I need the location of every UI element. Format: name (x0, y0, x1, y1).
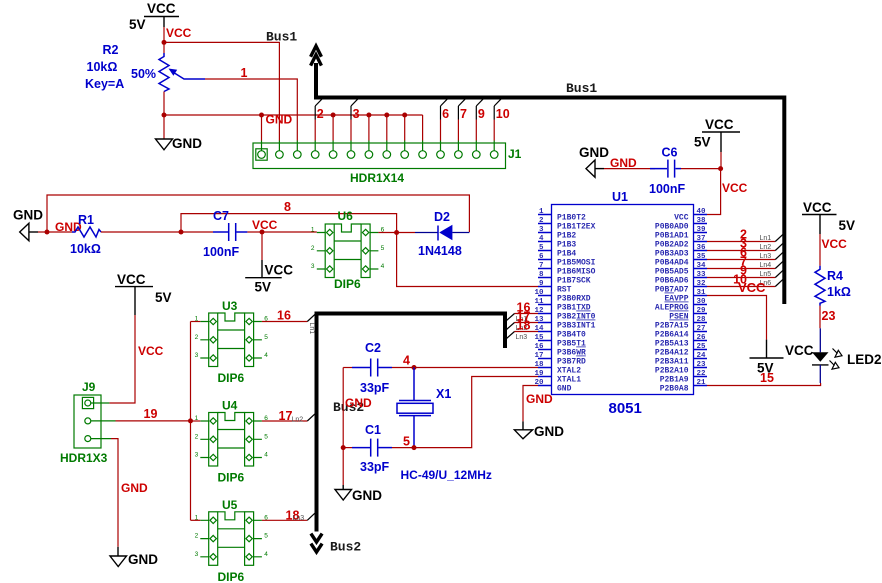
svg-text:P2B2A10: P2B2A10 (655, 367, 689, 376)
ground symbol below XTAL (335, 485, 382, 503)
bus entry net 7 Ln4 (740, 255, 783, 270)
svg-text:GND: GND (557, 385, 572, 394)
socket U3 DIP6 (195, 313, 269, 367)
junction J1 pin7 (366, 113, 371, 118)
power VCC above J9 (115, 272, 172, 315)
svg-text:P2B7A15: P2B7A15 (655, 322, 689, 331)
bus Bus2 (317, 314, 506, 532)
wire U6 pin6 to D2 node (378, 232, 415, 234)
svg-text:DIP6: DIP6 (334, 277, 361, 291)
svg-text:C6: C6 (662, 146, 678, 160)
svg-text:P2B3A11: P2B3A11 (655, 358, 689, 367)
svg-text:17: 17 (279, 409, 293, 423)
bus entry U1 pin13 net 17 (507, 310, 539, 333)
svg-text:1N4148: 1N4148 (418, 244, 462, 258)
wire U4 pin6 net 17 (262, 420, 307, 422)
wire U1 pin32 net 10 (707, 286, 775, 288)
svg-text:10kΩ: 10kΩ (87, 60, 118, 74)
resistor R1 (72, 227, 101, 237)
svg-text:100nF: 100nF (649, 182, 685, 196)
svg-text:Ln2: Ln2 (760, 244, 772, 251)
U1 right pin stubs (694, 215, 708, 386)
connector J9 HDR1X3 (74, 395, 116, 448)
power VCC inverted at C7 (245, 232, 293, 295)
svg-text:XTAL1: XTAL1 (557, 376, 581, 385)
svg-text:P0B2AD2: P0B2AD2 (655, 241, 689, 250)
svg-text:GND: GND (345, 396, 372, 410)
wire C6 to VCC node (681, 168, 721, 170)
svg-text:U1: U1 (612, 190, 628, 204)
svg-text:4: 4 (264, 452, 268, 459)
svg-text:C2: C2 (365, 341, 381, 355)
LED LED2 (812, 349, 842, 370)
bus entry J1 pin6 net 3 (351, 98, 360, 141)
svg-text:GND: GND (352, 488, 382, 503)
capacitor C2 (352, 359, 392, 377)
svg-text:100nF: 100nF (203, 245, 239, 259)
wire J1 pin5 to GND rail (332, 115, 334, 141)
wire R2 bottom lead (163, 92, 165, 116)
junction R2 top (162, 40, 167, 45)
svg-text:P1B5MOSI: P1B5MOSI (557, 259, 596, 268)
bus Bus1 (316, 63, 784, 304)
svg-text:P0B5AD5: P0B5AD5 (655, 268, 689, 277)
svg-text:33pF: 33pF (360, 460, 390, 474)
svg-text:3: 3 (195, 352, 199, 359)
svg-text:35: 35 (697, 253, 707, 261)
capacitor C6 (650, 160, 681, 178)
svg-text:P3B0RXD: P3B0RXD (557, 295, 591, 304)
U1 right pin names (655, 214, 689, 394)
svg-text:P0B3AD3: P0B3AD3 (655, 250, 689, 259)
svg-text:5: 5 (381, 245, 385, 252)
svg-text:VCC: VCC (252, 218, 278, 232)
junction J1 pin1 (259, 113, 264, 118)
svg-text:DIP6: DIP6 (218, 570, 245, 583)
wire U1 pin35 net 6 (707, 259, 775, 261)
svg-text:P2B5A13: P2B5A13 (655, 340, 689, 349)
wire J9 pin2 net 19 (116, 420, 191, 422)
svg-text:3: 3 (539, 226, 544, 234)
svg-text:P0B4AD4: P0B4AD4 (655, 259, 689, 268)
svg-text:5V: 5V (839, 218, 856, 233)
svg-text:30: 30 (697, 298, 707, 306)
bus entry net 6 Ln3 (740, 246, 783, 261)
svg-text:4: 4 (264, 551, 268, 558)
op-amp U1 8051 body (552, 205, 694, 395)
wire XTAL GND riser (342, 368, 344, 486)
svg-text:1kΩ: 1kΩ (827, 285, 851, 299)
U1 left pin stubs (538, 215, 552, 386)
wire U4 pin1 (191, 420, 201, 422)
junction J1 pin8 (384, 113, 389, 118)
svg-text:U6: U6 (338, 209, 354, 223)
svg-text:GND: GND (610, 156, 637, 170)
svg-text:D2: D2 (434, 210, 450, 224)
svg-text:RST: RST (557, 286, 572, 295)
svg-text:P1B2: P1B2 (557, 232, 576, 241)
svg-text:U3: U3 (222, 299, 238, 313)
svg-text:9: 9 (478, 107, 485, 121)
svg-text:Ln2: Ln2 (292, 416, 304, 423)
junction J1 pin5 (331, 113, 336, 118)
svg-text:P0B0AD0: P0B0AD0 (655, 223, 689, 232)
svg-text:29: 29 (697, 307, 707, 315)
junction U6 pin6 / D2 / RST (394, 230, 399, 235)
svg-text:17: 17 (534, 352, 543, 360)
svg-text:P1B4: P1B4 (557, 250, 576, 259)
svg-text:40: 40 (697, 208, 707, 216)
svg-text:VCC: VCC (147, 1, 176, 16)
svg-text:Key=A: Key=A (85, 77, 124, 91)
svg-text:5V: 5V (694, 135, 711, 150)
svg-text:24: 24 (697, 352, 707, 360)
svg-text:ALEPROG: ALEPROG (655, 304, 689, 313)
svg-text:6: 6 (442, 107, 449, 121)
svg-text:10kΩ: 10kΩ (70, 242, 101, 256)
svg-text:Bus1: Bus1 (566, 81, 597, 96)
svg-text:5: 5 (264, 433, 268, 440)
bus entry net 16 Ln1 (277, 309, 315, 335)
crystal X1 (397, 368, 433, 448)
svg-text:P1B3: P1B3 (557, 241, 576, 250)
svg-text:P3B5T1: P3B5T1 (557, 340, 586, 349)
svg-text:P1B0T2: P1B0T2 (557, 214, 586, 223)
potentiometer R2 (159, 53, 205, 92)
svg-text:2: 2 (195, 334, 199, 341)
bus entry net 18 Ln3 (286, 509, 316, 523)
wire J1 pin1 to GND rail (261, 115, 263, 141)
svg-text:P0B6AD6: P0B6AD6 (655, 277, 689, 286)
wire LED2 cathode navy (819, 365, 821, 383)
svg-text:GND: GND (266, 113, 293, 127)
svg-text:Ln4: Ln4 (760, 262, 772, 269)
svg-text:6: 6 (539, 253, 544, 261)
svg-text:3: 3 (311, 263, 315, 270)
svg-text:5: 5 (539, 244, 544, 252)
wire U5 pin1 (191, 519, 201, 521)
junction left of R1 (45, 230, 50, 235)
wire C1 left (343, 447, 352, 449)
svg-text:C1: C1 (365, 423, 381, 437)
svg-text:26: 26 (697, 334, 707, 342)
wire J9 pin3 to ground (111, 439, 118, 547)
svg-text:4: 4 (381, 263, 385, 270)
svg-text:HDR1X3: HDR1X3 (60, 451, 108, 465)
junction node 4 (412, 365, 417, 370)
resistor R4 (815, 266, 825, 306)
svg-text:XTAL2: XTAL2 (557, 367, 581, 376)
power VCC inverted at pin31 (750, 340, 814, 376)
svg-text:2: 2 (195, 533, 199, 540)
svg-text:GND: GND (13, 208, 43, 223)
svg-text:22: 22 (697, 370, 707, 378)
svg-text:P1B7SCK: P1B7SCK (557, 277, 591, 286)
wire GND rail J1 (164, 114, 423, 116)
wire VCC to C6 node (720, 152, 722, 169)
svg-text:GND: GND (579, 145, 609, 160)
junction C6 VCC node (718, 166, 723, 171)
wire top loop to D2 cathode (47, 195, 469, 232)
svg-text:GND: GND (172, 136, 202, 151)
socket U5 DIP6 (195, 512, 269, 566)
svg-text:16: 16 (277, 309, 291, 323)
svg-text:P3B7RD: P3B7RD (557, 358, 586, 367)
svg-text:U4: U4 (222, 399, 238, 413)
svg-text:8: 8 (284, 200, 291, 214)
svg-text:P3B2INT0: P3B2INT0 (557, 313, 596, 322)
wire VCC to J9 pin1 (109, 315, 135, 403)
svg-text:23: 23 (697, 361, 707, 369)
svg-text:2: 2 (317, 107, 324, 121)
svg-text:Ln3: Ln3 (293, 515, 305, 522)
wire R2 top lead (163, 42, 165, 53)
wire C2 left (343, 367, 352, 369)
wire U1 pin36 net 3 (707, 250, 775, 252)
wire C7 to U6 pin1 (247, 231, 316, 233)
svg-text:EAVPP: EAVPP (664, 295, 688, 304)
svg-text:15: 15 (760, 371, 774, 385)
svg-text:5V: 5V (129, 17, 146, 32)
junction C1 left (341, 445, 346, 450)
junction C7 VCC tap (260, 230, 265, 235)
U1 left pin names (557, 214, 596, 394)
capacitor C7 (213, 223, 247, 241)
svg-text:P1B6MISO: P1B6MISO (557, 268, 596, 277)
svg-text:16: 16 (534, 343, 544, 351)
wire riser U3-U5 pin1 (190, 322, 192, 521)
svg-text:R1: R1 (78, 213, 94, 227)
bus entry J1 pin4 net 2 (315, 98, 324, 141)
svg-text:2: 2 (539, 217, 544, 225)
power VCC at R4 (802, 200, 855, 234)
bus entry J1 pin13 net 9 (476, 98, 485, 141)
svg-text:VCC: VCC (803, 200, 832, 215)
wire J1 pin7 to GND rail (368, 115, 370, 141)
power VCC above C6 (694, 117, 740, 152)
diode D2 1N4148 (415, 225, 469, 241)
svg-text:P2B1A9: P2B1A9 (660, 376, 689, 385)
svg-text:VCC: VCC (822, 237, 848, 251)
U1 right pin numbers (697, 208, 707, 387)
svg-text:7: 7 (460, 107, 467, 121)
svg-text:VCC: VCC (674, 214, 689, 223)
wire U3 pin1 (191, 321, 201, 323)
svg-text:P2B6A14: P2B6A14 (655, 331, 689, 340)
svg-text:P2B0A8: P2B0A8 (660, 385, 689, 394)
svg-text:PSEN: PSEN (669, 313, 688, 322)
svg-text:4: 4 (403, 354, 410, 368)
bus entry U1 pin12 net 16 (507, 301, 539, 324)
svg-text:VCC: VCC (117, 272, 146, 287)
svg-text:2: 2 (311, 245, 315, 252)
svg-text:P3B3INT1: P3B3INT1 (557, 322, 596, 331)
svg-text:39: 39 (697, 226, 707, 234)
svg-text:5: 5 (264, 334, 268, 341)
svg-text:33pF: 33pF (360, 381, 390, 395)
bus entry net 9 Ln5 (740, 264, 783, 279)
svg-text:GND: GND (534, 424, 564, 439)
junction J1 pin9 (402, 113, 407, 118)
U1 left pin numbers 1-20 (534, 208, 544, 387)
wire U3 pin6 net 16 (262, 321, 307, 323)
svg-text:HC-49/U_12MHz: HC-49/U_12MHz (401, 468, 492, 482)
ground arrow symbol at C6 (579, 145, 609, 177)
wire J1 pin9 to GND rail (404, 115, 406, 141)
svg-text:P1B1T2EX: P1B1T2EX (557, 223, 596, 232)
svg-text:5V: 5V (255, 280, 272, 295)
svg-text:8: 8 (539, 271, 544, 279)
svg-text:VCC: VCC (265, 263, 294, 278)
junction node 5 (412, 445, 417, 450)
svg-text:5V: 5V (155, 290, 172, 305)
wire C6 left (604, 168, 655, 170)
svg-text:Ln5: Ln5 (760, 271, 772, 278)
junction R2 bottom GND (162, 113, 167, 118)
svg-text:33: 33 (697, 271, 707, 279)
wire J1 pin10 to GND rail (422, 115, 424, 141)
svg-text:1: 1 (311, 227, 315, 234)
svg-text:31: 31 (697, 289, 707, 297)
svg-text:28: 28 (697, 316, 707, 324)
svg-text:J9: J9 (82, 380, 96, 394)
bus Bus1 arrow up (311, 46, 322, 66)
svg-text:3: 3 (195, 551, 199, 558)
wire R1 to C7 (101, 231, 213, 233)
wire C1 to U1 pin19 XTAL1 (392, 377, 538, 448)
wire J1 pin8 to GND rail (386, 115, 388, 141)
svg-text:10: 10 (496, 107, 510, 121)
bus entry J1 pin12 net 7 (458, 98, 467, 141)
svg-text:3: 3 (195, 452, 199, 459)
svg-text:Bus2: Bus2 (330, 540, 361, 555)
connector J1 HDR1X14 (253, 141, 506, 169)
power VCC top-left (129, 1, 179, 32)
svg-text:GND: GND (526, 392, 553, 406)
wire VCC symbol to node (163, 27, 165, 42)
wire GND arrow to R1 (38, 231, 72, 233)
bus entry U1 pin14 net 18 (507, 319, 539, 342)
bus entry net 10 Ln6 (733, 273, 783, 288)
svg-text:4: 4 (264, 352, 268, 359)
wire U1 pin37 net 2 (707, 241, 775, 243)
svg-text:4: 4 (539, 235, 544, 243)
svg-text:Ln3: Ln3 (760, 253, 772, 260)
svg-text:VCC: VCC (785, 343, 814, 358)
capacitor C1 (352, 439, 392, 457)
svg-text:Ln1: Ln1 (760, 235, 772, 242)
svg-text:10: 10 (534, 289, 544, 297)
wire RST from D2 node to U1 pin9 (397, 233, 538, 287)
svg-text:DIP6: DIP6 (218, 471, 245, 485)
svg-text:37: 37 (697, 235, 706, 243)
ground symbol at U1 pin20 (514, 421, 564, 439)
svg-text:VCC: VCC (722, 181, 748, 195)
svg-text:LED2: LED2 (847, 352, 882, 367)
svg-text:1: 1 (539, 208, 544, 216)
svg-text:P2B4A12: P2B4A12 (655, 349, 689, 358)
wire C2 to U1 pin18 XTAL2 (392, 367, 538, 369)
wire VCC node to J1 pin2 (164, 42, 279, 140)
svg-text:VCC: VCC (138, 344, 164, 358)
svg-text:34: 34 (697, 262, 707, 270)
svg-text:15: 15 (534, 334, 544, 342)
bus entry net 2 Ln1 (740, 228, 783, 243)
svg-text:25: 25 (697, 343, 707, 351)
svg-text:C7: C7 (213, 209, 229, 223)
svg-text:P0B1AD1: P0B1AD1 (655, 232, 689, 241)
svg-text:36: 36 (697, 244, 707, 252)
wire net 23 navy segment (819, 328, 821, 352)
svg-text:3: 3 (353, 107, 360, 121)
svg-text:X1: X1 (436, 387, 451, 401)
bus Bus2 arrow down (311, 534, 322, 552)
wire R2 wiper to J1 pin3 net 1 (205, 79, 297, 141)
svg-text:VCC: VCC (738, 280, 766, 295)
junction J9 pin2 riser (188, 418, 193, 423)
svg-text:GND: GND (128, 552, 158, 567)
bus entry J1 pin11 net 6 (441, 98, 450, 141)
wire U1 pin33 net 9 (707, 277, 775, 279)
wire GND rail to ground symbol (163, 115, 165, 139)
svg-text:P0B7AD7: P0B7AD7 (655, 286, 689, 295)
svg-text:18: 18 (517, 319, 531, 333)
svg-text:7: 7 (539, 262, 544, 270)
ground symbol below R2 (156, 136, 203, 151)
junction R1-C7 node (179, 230, 184, 235)
svg-text:2: 2 (195, 433, 199, 440)
svg-text:P3B1TXD: P3B1TXD (557, 304, 591, 313)
svg-text:VCC: VCC (705, 117, 734, 132)
svg-text:38: 38 (697, 217, 707, 225)
svg-text:HDR1X14: HDR1X14 (350, 171, 404, 185)
svg-text:U5: U5 (222, 498, 238, 512)
svg-text:50%: 50% (131, 67, 156, 81)
ground arrow symbol near R1 (13, 208, 43, 241)
svg-text:R4: R4 (827, 269, 843, 283)
wire LED2 to U1 pin21 net 15 (707, 383, 821, 386)
svg-text:11: 11 (534, 298, 544, 306)
svg-text:9: 9 (539, 280, 544, 288)
svg-text:J1: J1 (508, 147, 522, 161)
wire net 8 bypass over C7 (181, 214, 397, 233)
svg-text:P3B4T0: P3B4T0 (557, 331, 586, 340)
svg-text:Ln1: Ln1 (308, 323, 315, 335)
bus entry net 3 Ln2 (740, 237, 783, 252)
bus entry J1 pin14 net 10 (494, 98, 510, 141)
wire C6 node to U1 pin40 (707, 169, 721, 215)
svg-text:GND: GND (121, 481, 148, 495)
svg-text:23: 23 (822, 309, 836, 323)
svg-text:P3B6WR: P3B6WR (557, 349, 586, 358)
wire U1 pin20 to ground (523, 386, 538, 422)
svg-text:5: 5 (403, 435, 410, 449)
svg-text:R2: R2 (103, 43, 119, 57)
svg-text:DIP6: DIP6 (218, 371, 245, 385)
wire R4 to LED2 net 23 (819, 306, 821, 329)
svg-text:21: 21 (697, 379, 707, 387)
wire U1 pin34 net 7 (707, 268, 775, 270)
svg-text:27: 27 (697, 325, 706, 333)
svg-text:19: 19 (144, 407, 158, 421)
wire U5 pin6 net 18 (262, 519, 307, 521)
socket U4 DIP6 (195, 413, 269, 467)
svg-text:5: 5 (264, 533, 268, 540)
wire U1 pin31 EA to VCC (707, 296, 767, 340)
bus entry net 17 Ln2 (279, 409, 316, 423)
socket U6 DIP6 (311, 224, 385, 278)
svg-text:8051: 8051 (609, 400, 642, 417)
